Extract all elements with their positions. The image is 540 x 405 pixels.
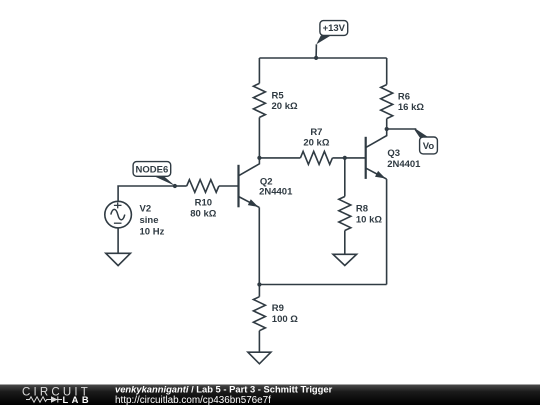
svg-text:R7: R7 xyxy=(310,127,322,138)
wire R6 top lead xyxy=(386,58,388,85)
ground below V2 xyxy=(106,253,131,265)
wire Vo stub xyxy=(387,128,417,130)
svg-text:2N4401: 2N4401 xyxy=(259,187,293,198)
ground below R9 xyxy=(248,352,271,364)
wire R5 bottom lead xyxy=(258,117,260,158)
wire R8 top lead xyxy=(344,158,346,197)
wire Q2 emitter down xyxy=(258,207,260,284)
resistor R7 xyxy=(300,151,332,164)
wire R7 right to Q3 base xyxy=(332,157,365,159)
ground below R8 xyxy=(333,254,357,265)
svg-text:R6: R6 xyxy=(398,91,410,102)
transistor Q3 xyxy=(366,129,387,179)
svg-text:20 kΩ: 20 kΩ xyxy=(272,101,298,112)
svg-text:100 Ω: 100 Ω xyxy=(272,314,298,325)
wire node R7 left xyxy=(259,157,300,159)
svg-text:16 kΩ: 16 kΩ xyxy=(398,102,424,113)
wire R8 bottom lead xyxy=(344,231,346,255)
svg-text:20 kΩ: 20 kΩ xyxy=(303,138,329,149)
svg-text:Vo: Vo xyxy=(423,141,435,152)
wire R6 bottom lead xyxy=(386,119,388,129)
svg-text:R5: R5 xyxy=(272,90,285,101)
svg-text:R8: R8 xyxy=(356,204,368,215)
node dot R8 top xyxy=(343,156,347,160)
resistor R10 xyxy=(187,180,219,193)
svg-text:R9: R9 xyxy=(272,303,284,314)
wire bottom rail xyxy=(259,284,386,286)
wire V2 top to node xyxy=(118,186,175,201)
svg-text:10 Hz: 10 Hz xyxy=(140,227,165,238)
wire R5 top lead xyxy=(258,58,260,83)
label R5 value xyxy=(140,90,425,325)
svg-text:CIRCUIT: CIRCUIT xyxy=(22,386,90,398)
wire R10 to Q2 base xyxy=(219,185,239,187)
svg-text:sine: sine xyxy=(140,215,159,226)
resistor R9 xyxy=(258,285,260,297)
wire top rail xyxy=(259,57,386,59)
logo symbols and LAB xyxy=(26,396,62,402)
node dot Q3 collector xyxy=(385,127,389,131)
node dot bottom xyxy=(257,282,261,286)
wire Q3 emitter down xyxy=(386,179,388,284)
svg-text:+13V: +13V xyxy=(323,23,346,34)
voltage source V2 xyxy=(105,201,132,228)
svg-text:http://circuitlab.com/cp436bn5: http://circuitlab.com/cp436bn576e7f xyxy=(115,395,271,405)
svg-text:2N4401: 2N4401 xyxy=(387,159,421,170)
svg-text:80 kΩ: 80 kΩ xyxy=(190,209,216,220)
svg-text:10 kΩ: 10 kΩ xyxy=(356,214,382,225)
flag Vo xyxy=(415,128,438,154)
svg-text:Q3: Q3 xyxy=(387,148,400,159)
resistor R8 xyxy=(339,197,351,231)
resistor R6 xyxy=(381,85,393,119)
resistor R5 xyxy=(253,83,265,117)
flag +13V xyxy=(316,21,347,45)
flag NODE6 xyxy=(133,162,175,186)
svg-text:LAB: LAB xyxy=(63,395,91,405)
node dot Q2 collector xyxy=(257,156,261,160)
svg-text:R10: R10 xyxy=(195,198,212,209)
wire +13V stub xyxy=(315,44,317,58)
svg-text:venkykanniganti / Lab 5 - Part: venkykanniganti / Lab 5 - Part 3 - Schmi… xyxy=(115,384,333,395)
wire NODE6 to R10 xyxy=(175,185,187,187)
transistor Q2 xyxy=(239,158,260,207)
svg-text:V2: V2 xyxy=(140,204,152,215)
svg-text:NODE6: NODE6 xyxy=(136,164,169,175)
node dot NODE6 xyxy=(173,184,177,188)
node dot +13V xyxy=(314,56,318,60)
wire V2 bottom lead xyxy=(117,228,119,253)
